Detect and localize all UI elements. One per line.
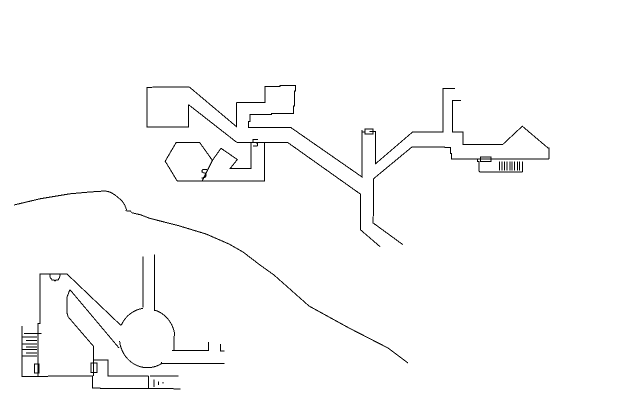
room A outline (upper-left chamber) (147, 87, 189, 127)
rooms B/C outline (upper middle chambers) (236, 86, 362, 177)
shaft right wall (376, 88, 455, 164)
step wall to south band (94, 360, 149, 376)
junction right wall and tail (373, 147, 549, 245)
entrance marker M1 (362, 129, 376, 134)
band divider (147, 376, 149, 389)
ceiling cup notch (50, 274, 60, 281)
east corridor wall mark (221, 344, 225, 351)
lower room D outline (38, 274, 67, 376)
west shaft wall (22, 326, 181, 389)
climb hatching (22, 337, 37, 356)
east corridor bottom wall (161, 362, 224, 364)
band top wall east part (150, 375, 179, 377)
entrance marker M2 (480, 157, 491, 161)
passage middle diagonal D2 (70, 290, 119, 348)
water ticks (154, 379, 163, 387)
room A inner diagonal wall (189, 105, 237, 143)
room A east wall spike (189, 87, 236, 127)
passage lower wall D3 (67, 290, 94, 376)
east corridor top wall (172, 342, 209, 351)
entrance marker M3 (91, 363, 97, 372)
north stub wall (453, 100, 549, 159)
passage lower wall to junction (237, 143, 380, 247)
hexagon east wall and floor (177, 143, 264, 181)
zigzag spur wall (212, 143, 251, 169)
pit hatching comb (478, 159, 523, 172)
hexagon chamber (165, 142, 212, 181)
station label S1 (253, 139, 258, 146)
round chamber (120, 308, 175, 367)
passage upper diagonal D1 (67, 274, 121, 326)
chamber shaft walls (143, 254, 155, 311)
station label S2 (202, 170, 207, 178)
climb hatch tick (24, 333, 41, 335)
entrance marker M4 (34, 364, 39, 373)
surface profile line (14, 191, 408, 363)
